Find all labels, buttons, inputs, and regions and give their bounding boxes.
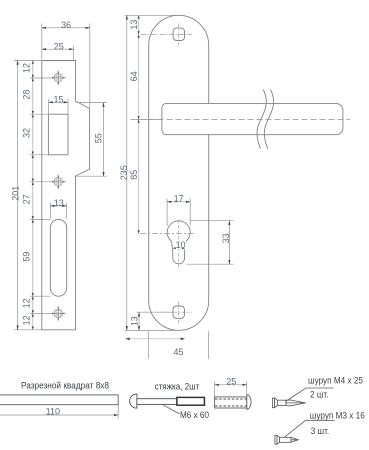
svg-text:12: 12 [22,315,32,325]
svg-text:28: 28 [22,90,32,100]
svg-text:25: 25 [226,377,236,387]
svg-text:36: 36 [61,20,71,30]
svg-text:45: 45 [173,347,183,357]
svg-text:15: 15 [53,94,63,104]
svg-text:Разрезной квадрат 8x8: Разрезной квадрат 8x8 [21,380,109,390]
svg-text:шуруп M3 x 16: шуруп M3 x 16 [310,411,365,422]
svg-text:12: 12 [22,298,32,308]
svg-text:25: 25 [54,41,64,51]
svg-text:235: 235 [119,165,129,180]
svg-text:64: 64 [129,71,139,81]
svg-text:85: 85 [129,170,139,180]
svg-text:13: 13 [129,316,139,326]
svg-text:59: 59 [22,252,32,262]
svg-text:13: 13 [54,198,64,208]
svg-text:201: 201 [10,186,20,201]
svg-text:шуруп M4 x 25: шуруп M4 x 25 [308,376,363,387]
svg-text:2 шт.: 2 шт. [310,390,329,401]
svg-text:32: 32 [22,128,32,138]
svg-text:55: 55 [93,133,103,143]
svg-text:3 шт.: 3 шт. [311,426,330,437]
svg-text:110: 110 [46,407,60,417]
svg-text:33: 33 [221,233,231,243]
svg-text:10: 10 [176,240,186,250]
svg-text:27: 27 [22,194,32,204]
svg-text:12: 12 [22,63,32,73]
svg-text:13: 13 [129,20,139,30]
svg-text:стяжка, 2шт: стяжка, 2шт [155,382,200,392]
svg-text:17: 17 [174,194,184,204]
svg-text:M6 x 60: M6 x 60 [180,410,209,420]
